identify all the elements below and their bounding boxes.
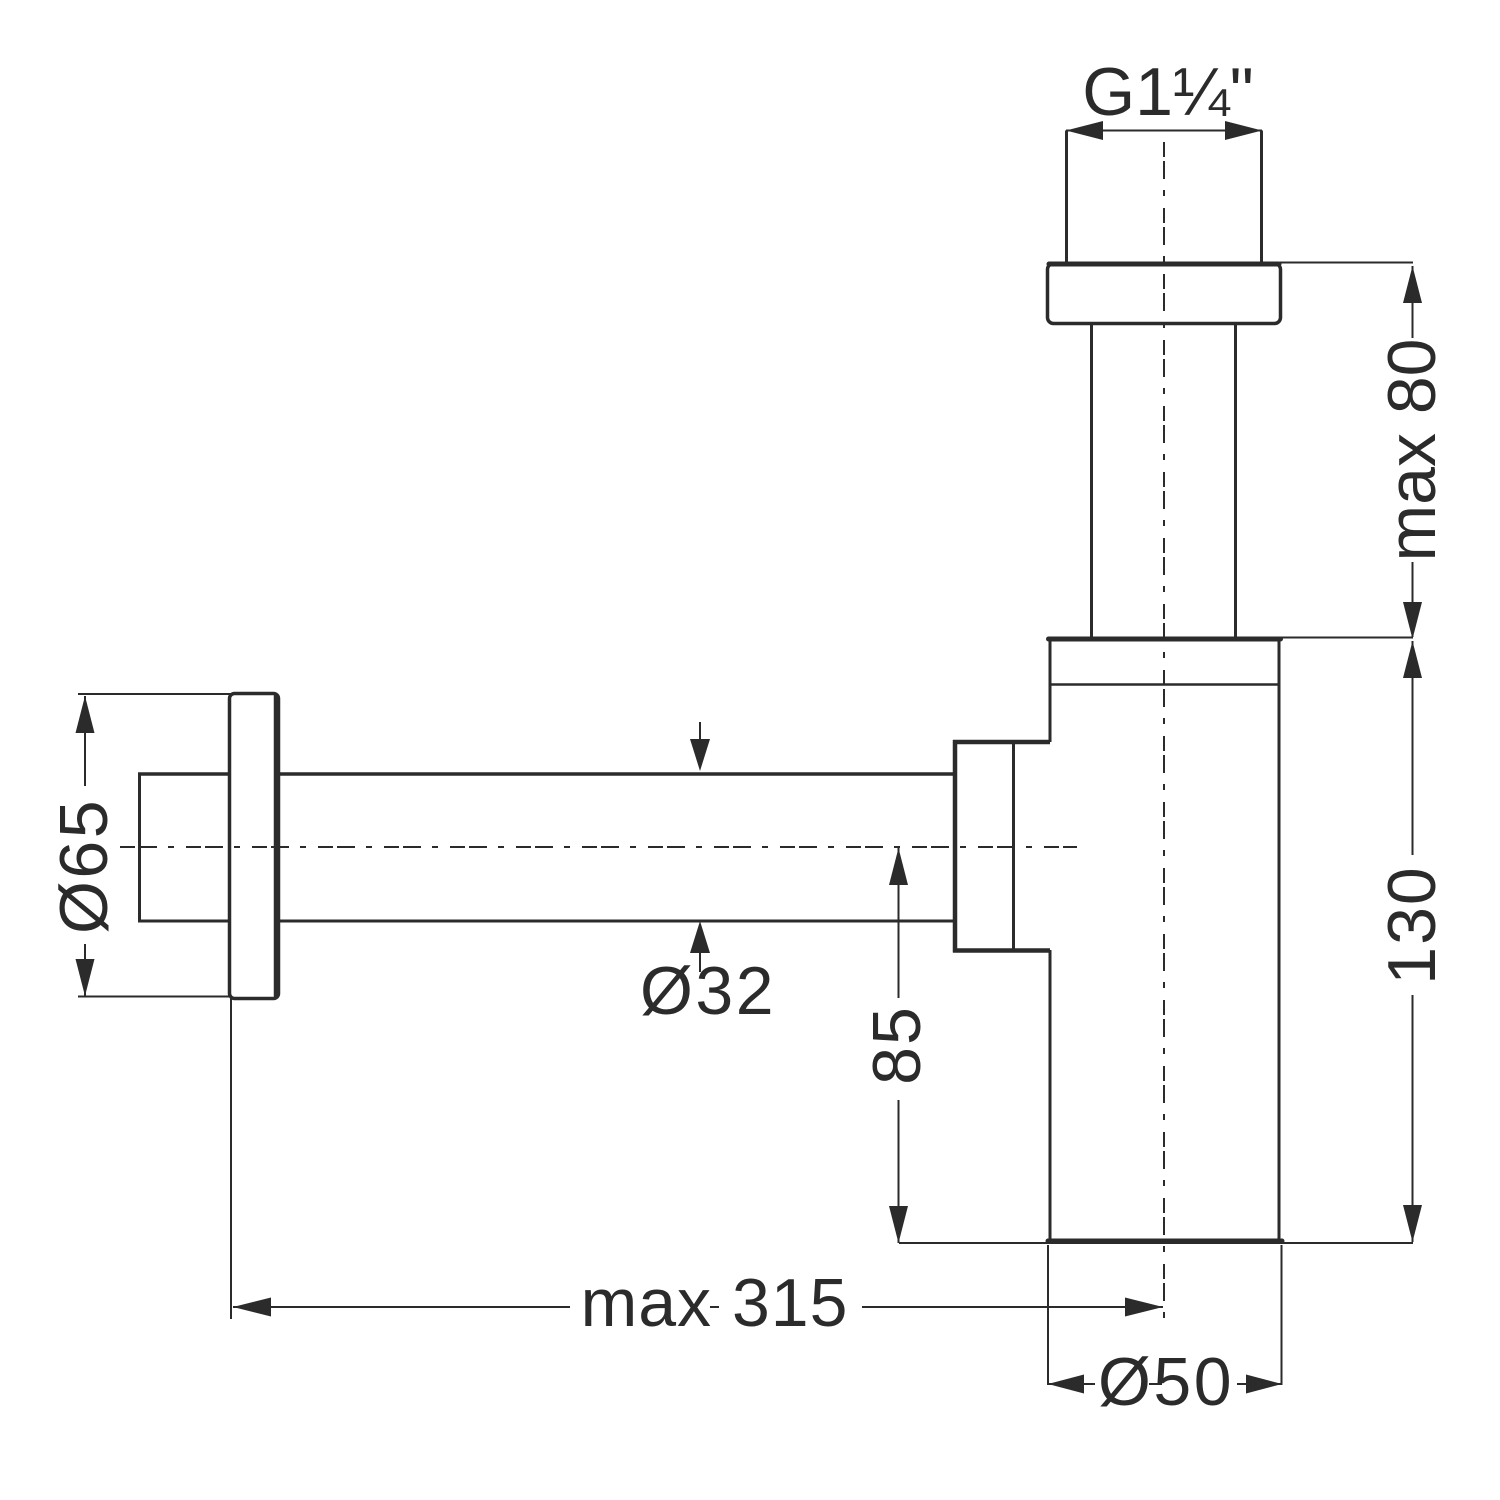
arrowhead G1 left [1066, 121, 1103, 140]
extension line Ø50 left [1047, 1245, 1049, 1385]
svg-text:Ø65: Ø65 [46, 798, 122, 934]
arrowhead G1 right [1225, 121, 1262, 140]
wall flange pipe end cap [138, 773, 231, 923]
body left wall upper segment [1049, 639, 1052, 742]
label Ø65 (rotated) [45, 786, 122, 944]
arrowhead max315 right [1125, 1298, 1163, 1317]
label Ø50 [1095, 1344, 1237, 1420]
arrowhead 130 bottom [1403, 1205, 1422, 1242]
svg-text:Ø50: Ø50 [1098, 1344, 1234, 1420]
arrowhead Ø50 left [1048, 1375, 1084, 1394]
arrowhead 130 top [1403, 641, 1422, 678]
dimension G1 1/4 line [1066, 130, 1262, 132]
body cap bottom joint line [1051, 683, 1278, 686]
dimension 85 line [898, 848, 900, 1243]
centerline horizontal [120, 846, 1077, 848]
arrowhead 85 top [889, 848, 908, 885]
vertical inlet tube [1092, 324, 1236, 640]
svg-text:max 80: max 80 [1374, 339, 1450, 562]
dimension max 315 line [233, 1306, 1163, 1308]
Ø32 pointer top: stem [699, 722, 701, 741]
svg-text:130: 130 [1374, 865, 1450, 984]
svg-text:Ø32: Ø32 [640, 953, 776, 1029]
svg-text:G1¼": G1¼" [1082, 54, 1254, 130]
label max 315 [570, 1265, 862, 1342]
extension line Ø65 bottom [78, 996, 231, 998]
extension line Ø50 right [1281, 1245, 1283, 1385]
siphon body cup [1048, 639, 1282, 1241]
horizontal outlet pipe Ø32 [277, 774, 953, 921]
label max 80 (rotated) [1374, 338, 1450, 562]
extension line body cap top right (max 80 end / 130 start) [1281, 637, 1413, 639]
Ø32 pointer bottom: stem [699, 952, 701, 972]
arrowhead Ø65 bottom [76, 959, 95, 996]
wall flange Ø65 [230, 694, 279, 999]
body cap top thick line [1049, 637, 1281, 642]
Ø32 arrowhead top (down) [690, 739, 710, 771]
dimension Ø65 line [84, 696, 86, 996]
body bottom thick line [1048, 1239, 1282, 1244]
svg-text:max 315: max 315 [581, 1265, 849, 1341]
arrowhead max315 left [233, 1298, 271, 1317]
arrowhead max80 top [1403, 266, 1422, 303]
label 85 (rotated) [859, 998, 935, 1100]
svg-text:85: 85 [859, 1005, 935, 1085]
arrowhead Ø65 top [76, 696, 95, 733]
extension line wall flange down (max 315 left) [230, 998, 232, 1319]
dimension max 80 line [1412, 266, 1414, 637]
top nut / flange [1048, 264, 1281, 324]
extension line body bottom (85 / 130 baseline) [899, 1242, 1413, 1244]
Ø32 arrowhead bottom (up) [690, 921, 710, 953]
siphon inlet port nut [953, 740, 1050, 953]
body left wall lower segment [1049, 950, 1052, 1241]
arrowhead 85 bottom [889, 1206, 908, 1243]
arrowhead Ø50 right [1246, 1375, 1282, 1394]
label 130 (rotated) [1374, 855, 1450, 995]
extension line Ø65 top [78, 693, 231, 695]
arrowhead max80 bottom [1403, 602, 1422, 639]
dimension Ø50 line [1048, 1383, 1282, 1385]
body right wall [1278, 639, 1281, 1241]
dimension 130 line [1412, 641, 1414, 1242]
centerline vertical [1163, 142, 1165, 1327]
G1 1/4 threaded stub [1067, 131, 1262, 265]
extension line flange top right (max 80 start) [1280, 262, 1413, 264]
